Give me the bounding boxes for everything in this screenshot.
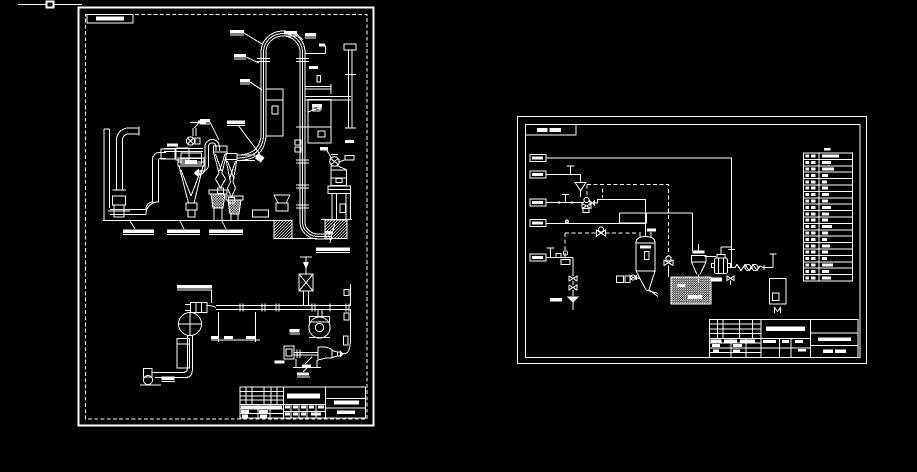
cyclone (right sheet) [692, 256, 707, 263]
small cluster on box5 line [556, 254, 561, 258]
spray dryer vessel [636, 237, 655, 244]
stream box 4 [530, 220, 546, 227]
train baseline [293, 367, 321, 369]
control valve on dashed line [598, 227, 603, 232]
leader lines [244, 33, 262, 44]
cyclone classifier 2 [226, 154, 237, 160]
right cells [326, 398, 366, 400]
inline filter with X [299, 274, 313, 291]
vent tee on box2 line [570, 166, 572, 175]
sheet inner dashed border [86, 15, 368, 420]
leader labels upper diagram [200, 30, 354, 143]
elbow to pump [155, 368, 188, 373]
train labels [275, 361, 312, 376]
line box4 along heater box [546, 222, 646, 224]
left standing duct [103, 129, 105, 221]
stream box 3 [530, 199, 546, 206]
sheet inner border [526, 125, 861, 358]
elbow at bottom of right leg turning right [300, 222, 318, 239]
stream box 1 [530, 155, 546, 162]
title block text blobs [241, 394, 359, 418]
standpipe right [348, 50, 350, 128]
grinder body [181, 153, 202, 164]
valve on riser bottom [113, 196, 126, 205]
sheet label box [526, 125, 577, 136]
small boxes left of right leg [295, 140, 301, 145]
pipe left leg [260, 52, 262, 137]
riser from pipe end [350, 284, 352, 306]
flex hose zigzag [732, 265, 774, 271]
conveying pipe inverted-U arc [261, 31, 305, 52]
motor feed spout [339, 160, 345, 162]
dimension line under suction pipe [211, 339, 260, 341]
right-leg equipment box (right side) [308, 100, 331, 128]
vent tee on box3 line [565, 195, 567, 203]
classifier foundation 2 [226, 196, 243, 200]
tick on riser [729, 249, 736, 251]
cyclone classifier 1 [214, 146, 228, 152]
label box under bag filter [712, 278, 723, 282]
pipe sweep from left leg down-left to cyclone feed [237, 137, 261, 155]
middle cells [284, 404, 326, 406]
line from box2 to funnel [546, 175, 581, 183]
dryer cone [636, 271, 655, 290]
blower circle left [179, 313, 202, 336]
feeder boxes [161, 149, 175, 159]
discharge line from riser to pump train [341, 338, 351, 354]
pump cluster under funnel [584, 197, 589, 202]
bend outlet elbow to grinder [198, 167, 206, 175]
leader line to joint [238, 125, 259, 153]
sheet label box [87, 15, 133, 24]
stand column [177, 339, 190, 369]
filter outlet [186, 203, 197, 210]
line box3 through cluster to dryer [546, 202, 584, 204]
heater label [177, 285, 212, 289]
extra flange ticks right leg [296, 184, 309, 186]
dashed control line upper [587, 185, 669, 257]
line box5 down leg [546, 257, 573, 259]
180-degree return bend [205, 140, 220, 146]
flange ticks right leg [296, 58, 309, 60]
cross fitting [114, 205, 124, 217]
equipment list table [804, 153, 853, 281]
feed funnel [575, 183, 586, 191]
line from box1 across to right riser [546, 158, 732, 268]
filter tailpipe [303, 291, 305, 306]
riser and fitting at right [772, 254, 774, 268]
bag filter unit [715, 258, 728, 274]
left revision grid [240, 390, 284, 392]
bottom horizontal pipe to elbow [110, 209, 146, 211]
label above dryer [647, 229, 656, 232]
under-ground labels with underline [123, 230, 243, 234]
rotary valve under classifiers [253, 210, 269, 217]
drain funnel [567, 297, 580, 303]
feed pipe to cyclone 2 [237, 154, 255, 156]
fluid bed hatched box [671, 277, 711, 304]
ground line upper diagram [103, 220, 292, 222]
right cells [811, 332, 859, 334]
control valve at dashed line end [666, 256, 671, 261]
flange ticks left leg [257, 58, 270, 60]
silencer label [316, 248, 350, 252]
blower downpipe [187, 336, 189, 369]
right-leg equipment box upper [266, 89, 283, 136]
foundation step hatch [274, 221, 292, 239]
line down to cyclone [646, 213, 692, 251]
dashed control line lower [565, 232, 597, 234]
mill with motor (right) [330, 157, 340, 167]
main suction pipe [216, 305, 351, 307]
sheet outer border [79, 8, 374, 426]
right sheet title block [710, 320, 859, 358]
gauge box [344, 336, 349, 345]
rotated flange joint on sweep [255, 154, 265, 163]
cursor crosshair [18, 4, 46, 6]
M cabinet [770, 279, 787, 305]
vent arrow on filter [300, 256, 312, 258]
heater box on blower [191, 303, 208, 313]
stream box 2 [530, 171, 546, 178]
middle cells [761, 337, 811, 339]
pipe right leg [299, 52, 301, 222]
right title block text [711, 327, 852, 353]
bag filter cone [179, 166, 203, 203]
riser pipe with top elbow [116, 140, 118, 190]
left grid [710, 323, 762, 325]
bag filter cap [178, 158, 204, 166]
valves on down leg [569, 276, 577, 281]
sheet outer border [518, 117, 867, 364]
stream box 5 [530, 254, 546, 261]
leader label underlines [230, 34, 244, 36]
branch pipe to right [305, 86, 331, 88]
roots blower [310, 317, 330, 323]
vent tee near box5 [550, 248, 552, 258]
cyclone to bag filter line [705, 256, 717, 258]
small valve under bag filter [727, 276, 734, 281]
platform band [164, 148, 203, 150]
pump train [284, 346, 294, 359]
mill base hatch [325, 220, 347, 239]
feed pump [144, 376, 153, 385]
boxes left of dryer [617, 276, 624, 283]
classifier foundation 1 [209, 190, 227, 194]
grinder feed funnel and motor [190, 123, 199, 129]
elbow up to feeder boxes [152, 152, 166, 160]
